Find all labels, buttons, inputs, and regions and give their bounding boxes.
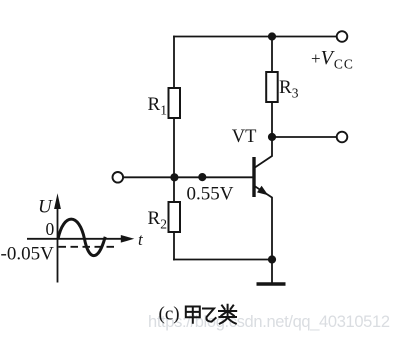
- node base junction 2: [198, 173, 206, 181]
- waveform t axis: [27, 238, 125, 240]
- svg-text:U: U: [38, 197, 53, 218]
- caption char lei: [219, 305, 236, 324]
- node collector junction: [268, 133, 276, 141]
- transistor VT emitter arrow: [257, 186, 268, 196]
- svg-text:R1: R1: [148, 94, 167, 118]
- terminal input (open circle): [113, 172, 124, 183]
- caption char jia: [186, 307, 200, 323]
- waveform -0.05V dashed level line: [59, 246, 117, 248]
- resistor R2: [169, 202, 181, 232]
- terminal +Vcc (open circle): [337, 31, 348, 42]
- wire ground stem: [271, 260, 273, 283]
- wire bottom rail: [174, 259, 272, 261]
- wire VCC rail to R3: [271, 37, 273, 73]
- svg-text:-0.05V: -0.05V: [1, 244, 55, 265]
- wire R3 bottom to collector node: [271, 102, 273, 137]
- waveform sine curve: [58, 219, 105, 255]
- svg-text:VT: VT: [232, 127, 257, 147]
- node VCC rail junction: [268, 32, 276, 40]
- wire R1 bottom to base node to R2: [173, 118, 175, 202]
- wire emitter diagonal and down: [255, 187, 272, 260]
- svg-text:t: t: [138, 230, 144, 249]
- wire top rail VCC: [174, 36, 337, 38]
- caption char yi: [203, 309, 216, 322]
- svg-text:(c): (c): [159, 304, 180, 325]
- svg-text:https://blog.csdn.net/qq_40310: https://blog.csdn.net/qq_40310512: [148, 313, 390, 331]
- node emitter/ground junction: [268, 255, 276, 263]
- ground: [257, 282, 286, 286]
- waveform U axis: [57, 207, 59, 283]
- terminal output (open circle): [337, 132, 348, 143]
- wire left branch top (rail to R1): [173, 37, 175, 89]
- svg-text:0.55V: 0.55V: [187, 184, 234, 205]
- resistor R1: [169, 88, 181, 118]
- svg-text:+VCC: +VCC: [311, 47, 354, 72]
- svg-text:R3: R3: [279, 77, 299, 101]
- wire input to base: [124, 176, 253, 178]
- svg-text:R2: R2: [148, 208, 167, 232]
- transistor VT bar: [252, 157, 255, 197]
- wire collector node to output terminal: [272, 136, 337, 138]
- node base junction 1: [170, 173, 178, 181]
- svg-text:0: 0: [46, 219, 55, 239]
- resistor R3: [266, 72, 278, 102]
- wire collector node to transistor collector: [255, 137, 272, 167]
- wire R2 bottom to bottom rail: [173, 232, 175, 260]
